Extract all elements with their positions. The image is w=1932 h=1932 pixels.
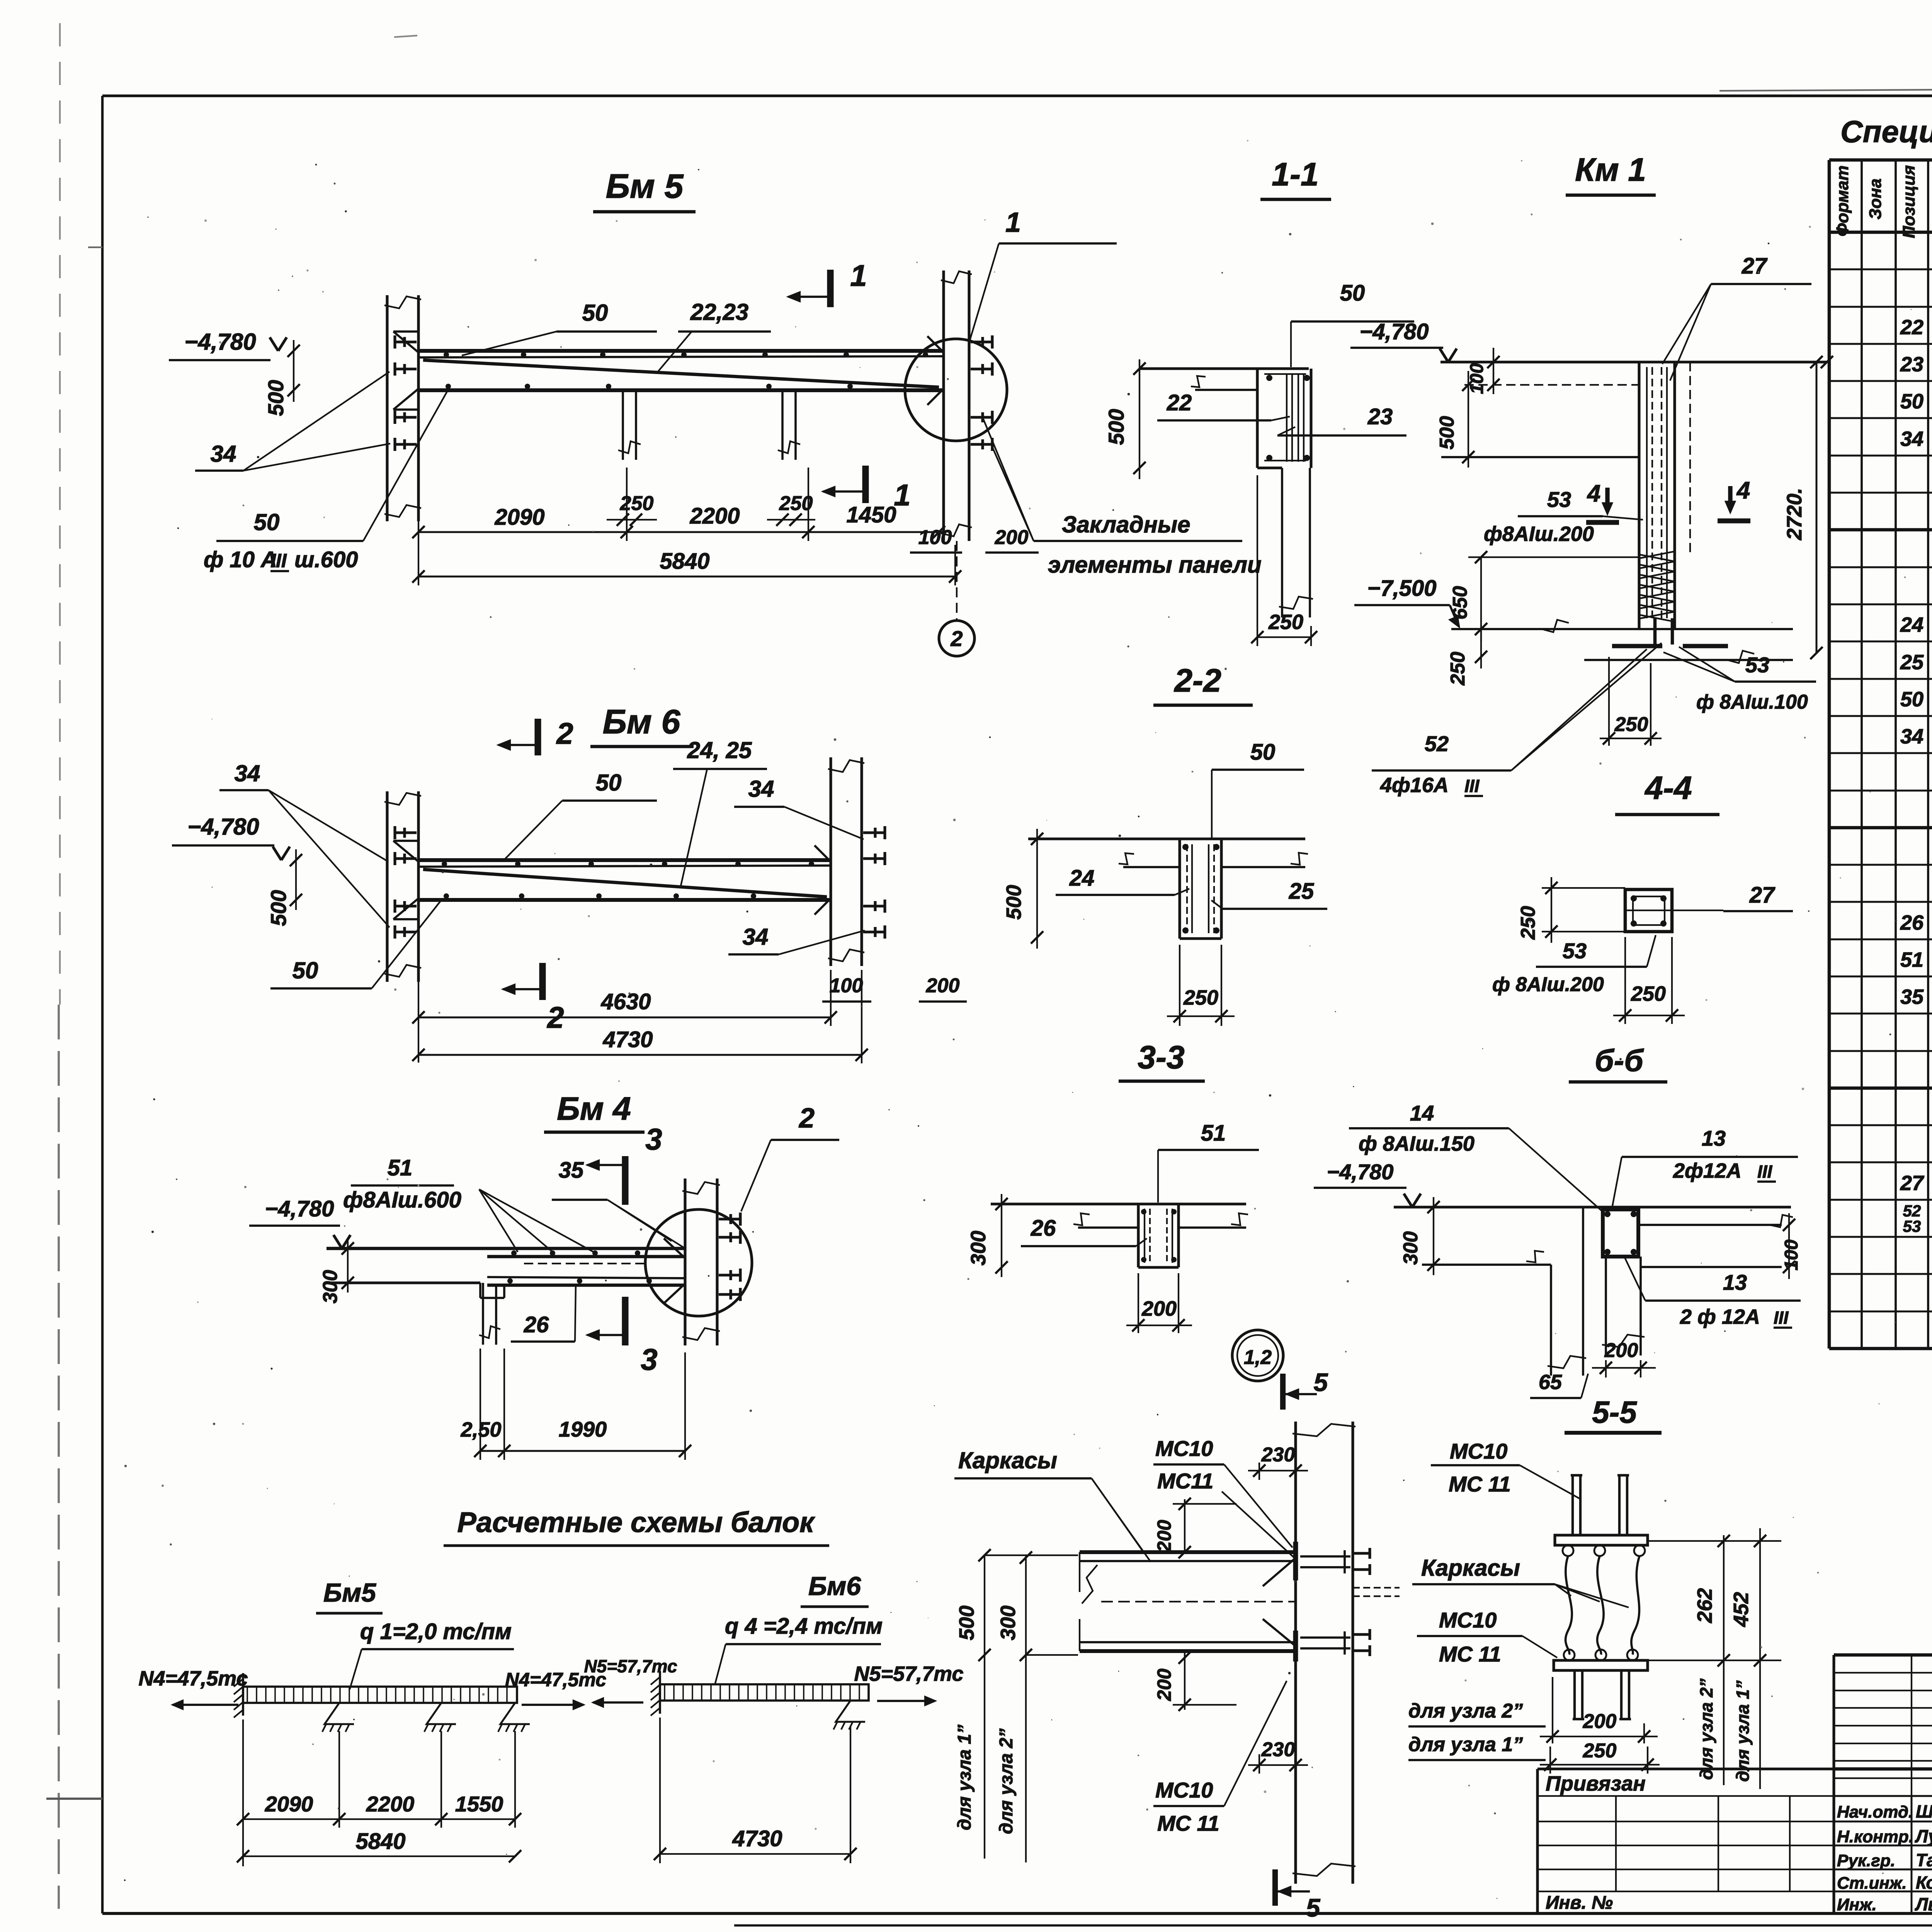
svg-text:−4,780: −4,780 — [265, 1196, 334, 1221]
svg-text:50: 50 — [1340, 281, 1365, 306]
svg-text:2: 2 — [798, 1103, 815, 1134]
node beam break left — [1082, 1565, 1097, 1604]
КМ1 dim 100 — [1493, 348, 1494, 394]
svg-text:Зона: Зона — [1866, 179, 1885, 219]
svg-text:452: 452 — [1730, 1592, 1753, 1627]
svg-text:51: 51 — [1201, 1121, 1226, 1146]
section 4-4 extension lines left — [1542, 887, 1625, 889]
svg-text:МС 11: МС 11 — [1439, 1642, 1501, 1666]
Бм6 right gussets — [815, 845, 831, 862]
svg-text:N4=47,5тс: N4=47,5тс — [139, 1667, 248, 1690]
svg-text:Ст.инж.: Ст.инж. — [1837, 1874, 1907, 1893]
scheme Бм5 supports — [325, 1703, 354, 1724]
svg-text:МС10: МС10 — [1155, 1778, 1213, 1802]
section б-б dim 300 — [1433, 1197, 1434, 1275]
svg-text:27: 27 — [1742, 253, 1768, 279]
svg-text:Закладные: Закладные — [1062, 512, 1190, 537]
svg-text:35: 35 — [1900, 985, 1924, 1009]
section 4-4 dim 250 bottom — [1624, 937, 1626, 1024]
svg-text:Н.контр.: Н.контр. — [1837, 1827, 1913, 1846]
svg-text:ф8АIш.600: ф8АIш.600 — [343, 1187, 461, 1213]
КМ1 beam bottom line — [1441, 456, 1639, 458]
Бм6 dim 4630 — [418, 1017, 831, 1019]
Бм6 left gussets — [393, 841, 418, 862]
svg-text:элементы панели: элементы панели — [1048, 552, 1262, 578]
scheme Бм6 beam with hatch — [660, 1684, 869, 1701]
section 2-2 cage — [1186, 844, 1188, 933]
svg-text:200: 200 — [1141, 1297, 1177, 1320]
svg-text:Инв. №: Инв. № — [1546, 1893, 1613, 1913]
svg-text:22: 22 — [1900, 316, 1923, 339]
Бм5 right gussets — [927, 336, 944, 352]
svg-text:250: 250 — [1268, 611, 1303, 634]
svg-text:Нач.отд.: Нач.отд. — [1837, 1803, 1913, 1821]
КМ1 dashed wall edge right — [1689, 362, 1691, 556]
svg-text:5: 5 — [1306, 1893, 1321, 1922]
svg-text:500: 500 — [264, 380, 288, 416]
svg-text:13: 13 — [1702, 1126, 1726, 1150]
Бм6 section mark 2 lower — [539, 963, 546, 1000]
svg-text:100: 100 — [830, 975, 863, 997]
svg-text:250: 250 — [1517, 906, 1539, 940]
svg-text:23: 23 — [1367, 404, 1393, 429]
svg-text:Кот: Кот — [1916, 1872, 1932, 1893]
svg-text:ш.600: ш.600 — [294, 547, 358, 572]
svg-text:2 ф 12А: 2 ф 12А — [1680, 1305, 1760, 1328]
svg-text:для узла 2”: для узла 2” — [1408, 1700, 1523, 1722]
scan noise speckles — [947, 378, 949, 380]
svg-text:100: 100 — [1781, 1240, 1802, 1270]
node bolts right of wall — [1353, 1552, 1370, 1554]
svg-text:25: 25 — [1289, 879, 1314, 904]
КМ1 dashed slab bottom — [1464, 384, 1639, 386]
svg-text:53: 53 — [1547, 487, 1571, 512]
svg-text:200: 200 — [1153, 1668, 1175, 1701]
svg-text:МС11: МС11 — [1157, 1469, 1213, 1493]
svg-text:52: 52 — [1425, 731, 1449, 756]
svg-text:Тахтамышева: Тахтамышева — [1916, 1850, 1932, 1870]
Бм5 left gussets — [393, 332, 418, 352]
svg-text:27: 27 — [1749, 883, 1776, 908]
title block signature rows — [1834, 1795, 1932, 1797]
svg-text:Расчетные схемы балок: Расчетные схемы балок — [457, 1506, 815, 1538]
svg-text:Бм 5: Бм 5 — [606, 167, 684, 205]
svg-text:для узла 2”: для узла 2” — [1696, 1679, 1716, 1780]
svg-text:МС 11: МС 11 — [1157, 1811, 1219, 1835]
sheet frame — [102, 94, 1932, 97]
Бм5 dim row1 — [418, 531, 944, 533]
node dim 500 300 left — [984, 1555, 985, 1859]
node wall — [1294, 1422, 1297, 1884]
5-5 bolt heads top — [1563, 1545, 1573, 1556]
svg-text:Рук.гр.: Рук.гр. — [1837, 1851, 1895, 1870]
Бм5 left wall — [386, 295, 388, 521]
svg-text:для узла 1”: для узла 1” — [1733, 1680, 1753, 1782]
scheme Бм5 left wall support — [242, 1673, 244, 1716]
svg-text:26: 26 — [1900, 911, 1924, 934]
svg-text:24, 25: 24, 25 — [687, 737, 752, 763]
svg-text:250: 250 — [1183, 986, 1218, 1009]
svg-text:23: 23 — [1900, 353, 1923, 376]
node dashed anchor lines right — [1353, 1587, 1400, 1588]
svg-text:34: 34 — [1900, 427, 1923, 451]
Бм5 left wall anchors — [395, 340, 417, 343]
spec table grid — [1828, 160, 1831, 1349]
svg-text:26: 26 — [1031, 1216, 1056, 1241]
КМ1 column body — [1638, 362, 1640, 629]
svg-text:б-б: б-б — [1595, 1043, 1644, 1078]
Бм5 right wall — [942, 270, 945, 541]
Бм6 beam outline — [418, 858, 831, 862]
Бм6 dim 500 — [295, 849, 297, 910]
svg-text:500: 500 — [1436, 416, 1458, 450]
title block revision grid — [1834, 1672, 1932, 1673]
svg-text:4630: 4630 — [600, 989, 651, 1014]
svg-text:51: 51 — [388, 1155, 413, 1180]
section б-б dim 200 — [1605, 1360, 1607, 1378]
svg-text:500: 500 — [1002, 885, 1026, 920]
КМ1 dim 250 bottom — [1608, 657, 1610, 746]
Бм5 rebar dots top — [444, 352, 449, 357]
svg-text:q 4 =2,4 тс/пм: q 4 =2,4 тс/пм — [725, 1614, 883, 1639]
scheme Бм5 beam with hatch — [243, 1687, 517, 1703]
scheme Бм6 left wall support — [659, 1671, 661, 1714]
svg-text:N5=57,7тс: N5=57,7тс — [854, 1662, 964, 1685]
5-5 dim 452 — [1759, 1528, 1761, 1789]
Бм6 bent rebar diagonal — [423, 869, 827, 897]
svg-text:ф 8АIш.100: ф 8АIш.100 — [1696, 691, 1808, 713]
svg-text:34: 34 — [235, 760, 260, 786]
svg-text:50: 50 — [1900, 390, 1923, 413]
svg-text:300: 300 — [319, 1270, 342, 1304]
Бм6 dim 4730 — [418, 1054, 862, 1056]
svg-text:ф 8АIш.200: ф 8АIш.200 — [1492, 973, 1604, 996]
svg-text:53: 53 — [1903, 1217, 1921, 1235]
node dim 230 lower — [1248, 1764, 1308, 1766]
Бм4 gussets at wall — [664, 1238, 685, 1258]
svg-text:200: 200 — [926, 975, 960, 997]
svg-text:Каркасы: Каркасы — [1421, 1555, 1520, 1581]
Бм5 section mark 1 lower — [862, 466, 869, 503]
svg-text:2200: 2200 — [366, 1792, 415, 1816]
svg-text:5840: 5840 — [660, 549, 709, 574]
svg-text:250: 250 — [1614, 713, 1648, 736]
svg-text:1: 1 — [894, 478, 910, 512]
svg-text:III: III — [270, 550, 287, 571]
svg-text:1990: 1990 — [559, 1417, 607, 1441]
svg-text:III: III — [1464, 776, 1480, 796]
node dim 200 upper — [1184, 1499, 1185, 1552]
svg-text:1: 1 — [1005, 207, 1021, 238]
Бм5 dim 500 height — [293, 340, 294, 402]
node beam chords — [1080, 1550, 1296, 1554]
Бм4 step under beam — [479, 1283, 481, 1298]
node weld diagonals — [1263, 1558, 1296, 1586]
svg-text:24: 24 — [1069, 866, 1095, 891]
5-5 wavy rebar cages — [1566, 1556, 1572, 1655]
svg-text:Привязан: Привязан — [1546, 1772, 1646, 1795]
Бм4 section mark 3 upper — [622, 1156, 628, 1205]
Бм5 bent rebar diagonal — [423, 360, 939, 387]
node dashed centerline — [1101, 1601, 1296, 1602]
node section mark 5 lower — [1272, 1869, 1278, 1906]
svg-text:50: 50 — [1900, 688, 1923, 711]
svg-text:Позиция: Позиция — [1900, 165, 1918, 238]
svg-text:3-3: 3-3 — [1138, 1039, 1184, 1075]
section 1-1 wall below — [1281, 468, 1283, 617]
Бм6 left wall — [386, 791, 388, 982]
svg-text:4ф16А: 4ф16А — [1380, 774, 1449, 797]
КМ1 column hatch bottom — [1639, 551, 1675, 558]
Бм5 axis mark circled 2 — [956, 541, 957, 620]
svg-text:2: 2 — [950, 626, 963, 651]
section 4-4 column square — [1625, 889, 1672, 932]
svg-text:200: 200 — [1583, 1710, 1617, 1733]
Бм5 stirrup hanger 1 — [622, 390, 624, 460]
Бм6 right wall anchors — [863, 831, 885, 834]
node detail circled 1,2 — [1232, 1330, 1283, 1381]
Бм4 beam chords — [487, 1255, 685, 1259]
section 2-2 stem — [1178, 839, 1181, 939]
svg-text:4730: 4730 — [602, 1027, 653, 1052]
section 3-3 slab — [991, 1202, 1246, 1205]
5-5 bolt heads bottom — [1564, 1650, 1575, 1660]
Бм4 dashed centerline — [524, 1263, 649, 1264]
Бм4 dim 250 1990 — [480, 1450, 685, 1452]
svg-text:34: 34 — [743, 924, 769, 950]
КМ1 dim 250 left — [1480, 629, 1482, 668]
svg-text:2720.: 2720. — [1783, 488, 1806, 540]
svg-text:250: 250 — [620, 492, 654, 515]
svg-text:27: 27 — [1900, 1172, 1925, 1195]
section 3-3 stem — [1137, 1204, 1139, 1267]
svg-text:100: 100 — [918, 526, 952, 549]
svg-text:ф 8АIш.150: ф 8АIш.150 — [1359, 1132, 1475, 1155]
svg-text:5-5: 5-5 — [1592, 1395, 1637, 1429]
КМ1 floor -7,500 lines — [1451, 628, 1793, 630]
svg-text:1,2: 1,2 — [1244, 1346, 1272, 1369]
svg-text:230: 230 — [1261, 1738, 1295, 1761]
КМ1 dim 2720 — [1816, 362, 1818, 653]
svg-text:34: 34 — [748, 776, 774, 802]
svg-text:III: III — [1757, 1162, 1773, 1182]
Бм4 right wall — [684, 1179, 686, 1345]
svg-text:500: 500 — [266, 890, 291, 926]
svg-text:500: 500 — [1104, 409, 1128, 445]
svg-text:4730: 4730 — [732, 1826, 782, 1851]
node dim 230 upper — [1259, 1463, 1260, 1480]
svg-text:650: 650 — [1449, 586, 1471, 620]
КМ1 dim 650 — [1480, 557, 1482, 641]
svg-text:Каркасы: Каркасы — [958, 1447, 1057, 1473]
Бм5 stirrup hanger 2 — [781, 390, 784, 460]
svg-text:65: 65 — [1539, 1371, 1562, 1394]
Бм6 left wall anchors — [395, 831, 417, 834]
node dim 200 lower — [1184, 1651, 1185, 1710]
svg-text:24: 24 — [1900, 613, 1923, 636]
svg-text:300: 300 — [997, 1605, 1020, 1640]
svg-text:26: 26 — [524, 1312, 549, 1337]
svg-text:4: 4 — [1587, 480, 1600, 507]
5-5 bottom bolts — [1573, 1670, 1576, 1719]
section 3-3 dim 200 — [1138, 1273, 1139, 1333]
section 2-2 dim 500 — [1036, 829, 1038, 949]
svg-text:2,50: 2,50 — [460, 1418, 501, 1441]
svg-text:53: 53 — [1745, 653, 1769, 677]
svg-text:N5=57,7тс: N5=57,7тс — [584, 1656, 677, 1676]
title block left extension — [1536, 1769, 1539, 1913]
svg-text:Формат: Формат — [1833, 165, 1852, 236]
svg-text:200: 200 — [1604, 1339, 1638, 1362]
node anchors into wall — [1300, 1555, 1350, 1558]
svg-text:2ф12А: 2ф12А — [1673, 1159, 1742, 1182]
svg-text:1: 1 — [850, 259, 867, 293]
section 1-1 dim 500 — [1139, 359, 1140, 479]
КМ1 foot bent rebar — [1612, 644, 1662, 648]
svg-text:50: 50 — [596, 770, 622, 796]
section б-б stem below — [1605, 1257, 1607, 1355]
svg-text:2090: 2090 — [494, 505, 544, 530]
Бм4 detail circle — [645, 1209, 752, 1316]
scheme Бм6 dim 4730 — [660, 1853, 850, 1855]
svg-text:Лучковский: Лучковский — [1915, 1826, 1932, 1846]
section б-б slab — [1394, 1206, 1791, 1208]
Бм4 dim 300 — [347, 1238, 349, 1293]
svg-text:1-1: 1-1 — [1272, 156, 1318, 192]
svg-text:для узла 1”: для узла 1” — [954, 1725, 975, 1830]
svg-text:Спецификация элементов монолит: Спецификация элементов монолитной констр… — [1840, 114, 1932, 149]
svg-text:3: 3 — [641, 1342, 657, 1376]
5-5 top plate — [1555, 1535, 1648, 1545]
svg-text:50: 50 — [1250, 740, 1276, 765]
svg-text:300: 300 — [967, 1231, 990, 1265]
section б-б column cage — [1603, 1209, 1638, 1257]
svg-text:500: 500 — [955, 1605, 978, 1640]
svg-text:50: 50 — [254, 509, 280, 535]
svg-text:для узла 2”: для узла 2” — [996, 1728, 1017, 1834]
svg-text:22: 22 — [1167, 390, 1192, 415]
title block outline — [1834, 1653, 1932, 1657]
svg-text:для узла 1”: для узла 1” — [1408, 1733, 1523, 1756]
svg-text:262: 262 — [1693, 1588, 1716, 1623]
svg-text:q 1=2,0 тс/пм: q 1=2,0 тс/пм — [360, 1619, 512, 1644]
Бм4 slab outline — [327, 1247, 685, 1250]
svg-text:5840: 5840 — [355, 1829, 405, 1854]
section 1-1 beam outline — [1256, 369, 1259, 468]
svg-text:МС10: МС10 — [1155, 1436, 1213, 1461]
section 3-3 dim 300 — [1001, 1194, 1002, 1277]
svg-text:1550: 1550 — [455, 1792, 503, 1816]
Бм6 rebar dots — [442, 861, 447, 867]
Бм5 right wall anchors — [971, 340, 992, 343]
svg-text:Бм 6: Бм 6 — [603, 702, 681, 741]
node plate at wall face — [1293, 1542, 1298, 1580]
svg-text:МС10: МС10 — [1450, 1439, 1507, 1463]
Бм6 right wall — [829, 757, 832, 966]
svg-text:22,23: 22,23 — [690, 299, 748, 325]
svg-text:Бм6: Бм6 — [808, 1571, 861, 1601]
svg-text:−7,500: −7,500 — [1367, 576, 1436, 601]
svg-text:200: 200 — [1153, 1520, 1175, 1553]
svg-text:2090: 2090 — [265, 1792, 313, 1816]
svg-text:Бм5: Бм5 — [323, 1578, 376, 1607]
Бм5 detail circle — [905, 339, 1007, 441]
section б-б right lines — [1638, 1224, 1782, 1226]
svg-text:−4,780: −4,780 — [1359, 319, 1429, 344]
Бм4 section mark 3 lower — [622, 1297, 628, 1345]
svg-text:230: 230 — [1261, 1444, 1295, 1466]
page left edge scan artifact — [59, 23, 61, 1005]
Бм5 rebar dots bottom — [446, 384, 451, 389]
svg-text:2200: 2200 — [689, 503, 740, 529]
svg-text:4-4: 4-4 — [1644, 770, 1692, 806]
svg-text:3: 3 — [645, 1122, 662, 1156]
Бм5 dim row2 5840 — [418, 576, 955, 578]
svg-text:5: 5 — [1314, 1368, 1328, 1396]
node section mark 5 upper — [1280, 1374, 1286, 1410]
Бм4 right wall anchors — [719, 1218, 740, 1220]
svg-text:250: 250 — [1447, 652, 1469, 686]
section 3-3 cage — [1144, 1209, 1145, 1263]
Бм5 beam outline — [418, 349, 944, 353]
svg-text:Шейко: Шейко — [1916, 1801, 1932, 1821]
svg-text:4: 4 — [1736, 477, 1750, 504]
КМ1 floor line -4,780 — [1440, 361, 1827, 363]
svg-text:50: 50 — [582, 300, 608, 326]
section 4-4 dim 250 left — [1551, 877, 1552, 943]
КМ1 dim 500 — [1468, 371, 1469, 468]
Бм6 section mark 2 upper — [534, 719, 541, 755]
svg-text:250: 250 — [1631, 982, 1666, 1005]
svg-text:−4,780: −4,780 — [187, 814, 259, 840]
section 2-2 slab — [1028, 837, 1305, 840]
svg-text:25: 25 — [1900, 651, 1924, 674]
svg-text:53: 53 — [1563, 939, 1587, 963]
Бм5 section mark 1 upper — [827, 270, 833, 307]
5-5 top bolts — [1571, 1475, 1574, 1535]
svg-text:34: 34 — [1900, 725, 1923, 748]
Бм4 rebar dots — [511, 1250, 517, 1256]
section 1-1 slab — [1139, 367, 1309, 370]
fold mark left — [46, 1798, 102, 1800]
svg-text:100: 100 — [1467, 363, 1487, 394]
svg-text:МС 11: МС 11 — [1449, 1472, 1511, 1496]
svg-text:Км 1: Км 1 — [1575, 151, 1646, 188]
svg-text:300: 300 — [1400, 1231, 1422, 1265]
svg-text:200: 200 — [995, 526, 1029, 549]
svg-text:35: 35 — [559, 1158, 584, 1183]
КМ1 column cage — [1646, 367, 1648, 618]
svg-text:−4,780: −4,780 — [1327, 1160, 1394, 1184]
section б-б wall verticals — [1550, 1265, 1552, 1376]
svg-text:МС10: МС10 — [1439, 1608, 1497, 1632]
Бм4 hanger below slab — [482, 1283, 484, 1345]
section 1-1 rebar cage — [1286, 374, 1287, 462]
svg-text:13: 13 — [1723, 1270, 1747, 1294]
svg-text:Инж.: Инж. — [1837, 1895, 1877, 1914]
svg-text:34: 34 — [211, 441, 236, 467]
svg-text:Лыгин: Лыгин — [1915, 1894, 1932, 1914]
svg-text:50: 50 — [293, 957, 318, 983]
svg-text:1450: 1450 — [846, 502, 896, 527]
svg-text:14: 14 — [1410, 1101, 1434, 1125]
svg-text:III: III — [1774, 1308, 1789, 1328]
section 1-1 dim 250 — [1257, 475, 1258, 646]
svg-text:ф 10 А: ф 10 А — [204, 547, 277, 572]
svg-text:2-2: 2-2 — [1173, 662, 1221, 699]
section 2-2 dim 250 — [1179, 945, 1180, 1026]
fold mark left upper — [88, 247, 102, 248]
